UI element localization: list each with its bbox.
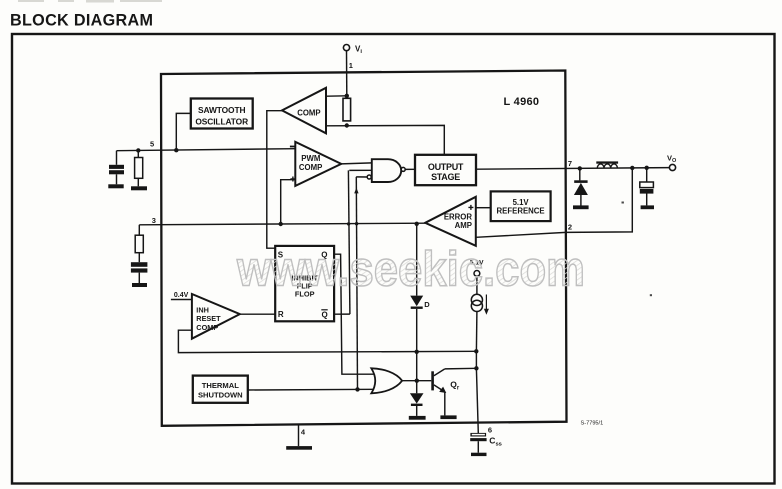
wire NAND inv input down to OR input row bbox=[356, 176, 367, 178]
ink blob crossings on pin3 row bbox=[347, 222, 350, 225]
svg-text:OUTPUT: OUTPUT bbox=[428, 162, 464, 172]
svg-text:SHUTDOWN: SHUTDOWN bbox=[198, 390, 243, 399]
node junction soft line end bbox=[474, 349, 478, 353]
svg-text:STAGE: STAGE bbox=[431, 172, 460, 182]
wire error amp plus to reference bbox=[476, 207, 491, 209]
box 5.1V reference bbox=[491, 191, 551, 221]
svg-text:R: R bbox=[278, 310, 284, 319]
current source symbol bbox=[471, 294, 482, 305]
diode clamp lower bbox=[416, 352, 418, 394]
svg-text:THERMAL: THERMAL bbox=[202, 381, 239, 390]
capacitor output bbox=[646, 168, 648, 182]
svg-text:0.4V: 0.4V bbox=[174, 292, 189, 299]
svg-text:6: 6 bbox=[488, 425, 492, 434]
ground comp ext bbox=[132, 283, 147, 287]
node junction Qr collector bbox=[474, 366, 478, 370]
svg-text:1: 1 bbox=[349, 61, 353, 70]
inductor L bbox=[596, 161, 618, 163]
terminal 5.1V bbox=[474, 271, 480, 277]
wire soft-start column bbox=[475, 312, 478, 352]
svg-text:AMP: AMP bbox=[455, 221, 472, 230]
NAND inverted input bubble bbox=[367, 175, 371, 179]
gate OR bbox=[371, 368, 402, 393]
resistor comp ext bbox=[138, 225, 140, 235]
pin 4 ground stub bbox=[298, 425, 300, 446]
sawtooth oscillator box bbox=[191, 99, 253, 129]
wire pin 2 feedback bbox=[476, 168, 632, 237]
node junction diode D top bbox=[415, 222, 419, 226]
node junction output cap bbox=[645, 166, 649, 170]
svg-text:BLOCK DIAGRAM: BLOCK DIAGRAM bbox=[10, 12, 153, 30]
wire reset comp lower input to soft-start line bbox=[178, 330, 476, 352]
svg-text:Q: Q bbox=[322, 310, 328, 319]
svg-text:S-7795/1: S-7795/1 bbox=[581, 420, 604, 426]
gate NAND bbox=[372, 159, 401, 182]
wire pin 7 row bbox=[476, 168, 669, 170]
svg-text:L 4960: L 4960 bbox=[504, 96, 540, 108]
top page-crop smudges bbox=[18, 0, 162, 3]
wire NAND out to output stage bbox=[405, 168, 415, 170]
svg-text:COMP: COMP bbox=[297, 108, 320, 117]
svg-text:COMP: COMP bbox=[196, 323, 218, 332]
transistor Qr bbox=[431, 371, 434, 390]
svg-text:www.seekic.com: www.seekic.com bbox=[236, 243, 585, 297]
terminal Vi bbox=[343, 45, 349, 51]
wire pin1 vertical bbox=[346, 51, 348, 96]
wire Q to OR gate bbox=[334, 254, 374, 374]
svg-text:5.1V: 5.1V bbox=[513, 198, 530, 207]
svg-text:REFERENCE: REFERENCE bbox=[497, 207, 545, 216]
ground output cap bbox=[641, 205, 654, 209]
speck bbox=[622, 202, 624, 204]
node junction PWM plus bbox=[279, 222, 283, 226]
svg-text:3: 3 bbox=[152, 216, 156, 225]
op-amp COMP bbox=[282, 88, 326, 134]
wire resistor bottom to output stage column bbox=[327, 125, 444, 154]
ground freewheel diode bbox=[573, 205, 589, 209]
wire OR output to Qr base bbox=[402, 380, 431, 382]
ground clamp diode bbox=[409, 416, 426, 420]
IC box L4960 bbox=[161, 71, 567, 426]
node junction diode bbox=[578, 166, 582, 170]
thermal shutdown box bbox=[193, 376, 248, 403]
svg-text:D: D bbox=[424, 300, 430, 309]
svg-text:COMP: COMP bbox=[299, 163, 322, 172]
node junction resistor bottom bbox=[345, 123, 349, 127]
wire Q-bar out bbox=[334, 313, 350, 315]
wire NAND middle input from Q-bar bbox=[349, 169, 372, 171]
terminal Vo bbox=[669, 164, 675, 170]
node junction soft line / diode column bbox=[415, 350, 419, 354]
node junction OR out / clamp diode bbox=[415, 379, 419, 383]
wire reset comp output to R bbox=[240, 313, 275, 315]
wire 0.4V input bbox=[171, 299, 192, 301]
wire COMP to resistor top bbox=[327, 95, 347, 97]
node junction pin1-resistor top bbox=[345, 94, 349, 98]
wire pin 3 row bbox=[139, 223, 425, 225]
svg-text:SAWTOOTH: SAWTOOTH bbox=[198, 105, 245, 115]
svg-text:OSCILLATOR: OSCILLATOR bbox=[195, 116, 248, 126]
capacitor Css bbox=[470, 433, 486, 437]
ground osc resistor bbox=[131, 186, 147, 190]
node junction sawtooth tap bbox=[174, 148, 178, 152]
arrowhead on inhibit wire bbox=[354, 188, 358, 194]
svg-text:PWM: PWM bbox=[301, 154, 320, 163]
ground osc cap bbox=[108, 184, 123, 188]
svg-text:5: 5 bbox=[150, 139, 154, 148]
node junction osc resistor bbox=[136, 148, 140, 152]
svg-text:2: 2 bbox=[568, 223, 572, 232]
op-amp PWM COMP bbox=[295, 142, 341, 186]
resistor R (supply divider) bbox=[343, 98, 351, 121]
wire COMP vertex to flip-flop S bbox=[267, 111, 283, 249]
ground Qr emitter bbox=[440, 415, 456, 419]
op-amp INH RESET COMP bbox=[192, 294, 240, 339]
diode D bbox=[416, 224, 418, 296]
capacitor osc ext bbox=[109, 165, 124, 175]
wire PWM plus input to pin3 row bbox=[281, 180, 296, 224]
output stage box bbox=[415, 155, 476, 185]
NAND output bubble bbox=[401, 167, 405, 171]
capacitor comp ext bbox=[131, 262, 148, 272]
wire thermal to OR input bbox=[248, 388, 375, 391]
flip-flop box bbox=[275, 246, 334, 321]
ground pin 4 bbox=[286, 446, 312, 450]
op-amp ERROR AMP bbox=[425, 197, 476, 246]
wire PWM output to NAND bbox=[341, 163, 372, 164]
arrow current source bbox=[485, 295, 487, 311]
ground Css bbox=[471, 453, 487, 456]
svg-text:7: 7 bbox=[568, 159, 572, 168]
node junction NAND-inv column on thermal wire bbox=[355, 387, 359, 391]
wire pin 5 row (osc) bbox=[117, 149, 296, 151]
wire sawtooth to pin5 row bbox=[176, 113, 191, 150]
resistor osc ext bbox=[137, 150, 139, 157]
node junction pin2 feedback bbox=[630, 166, 634, 170]
diode freewheel bbox=[579, 168, 581, 180]
